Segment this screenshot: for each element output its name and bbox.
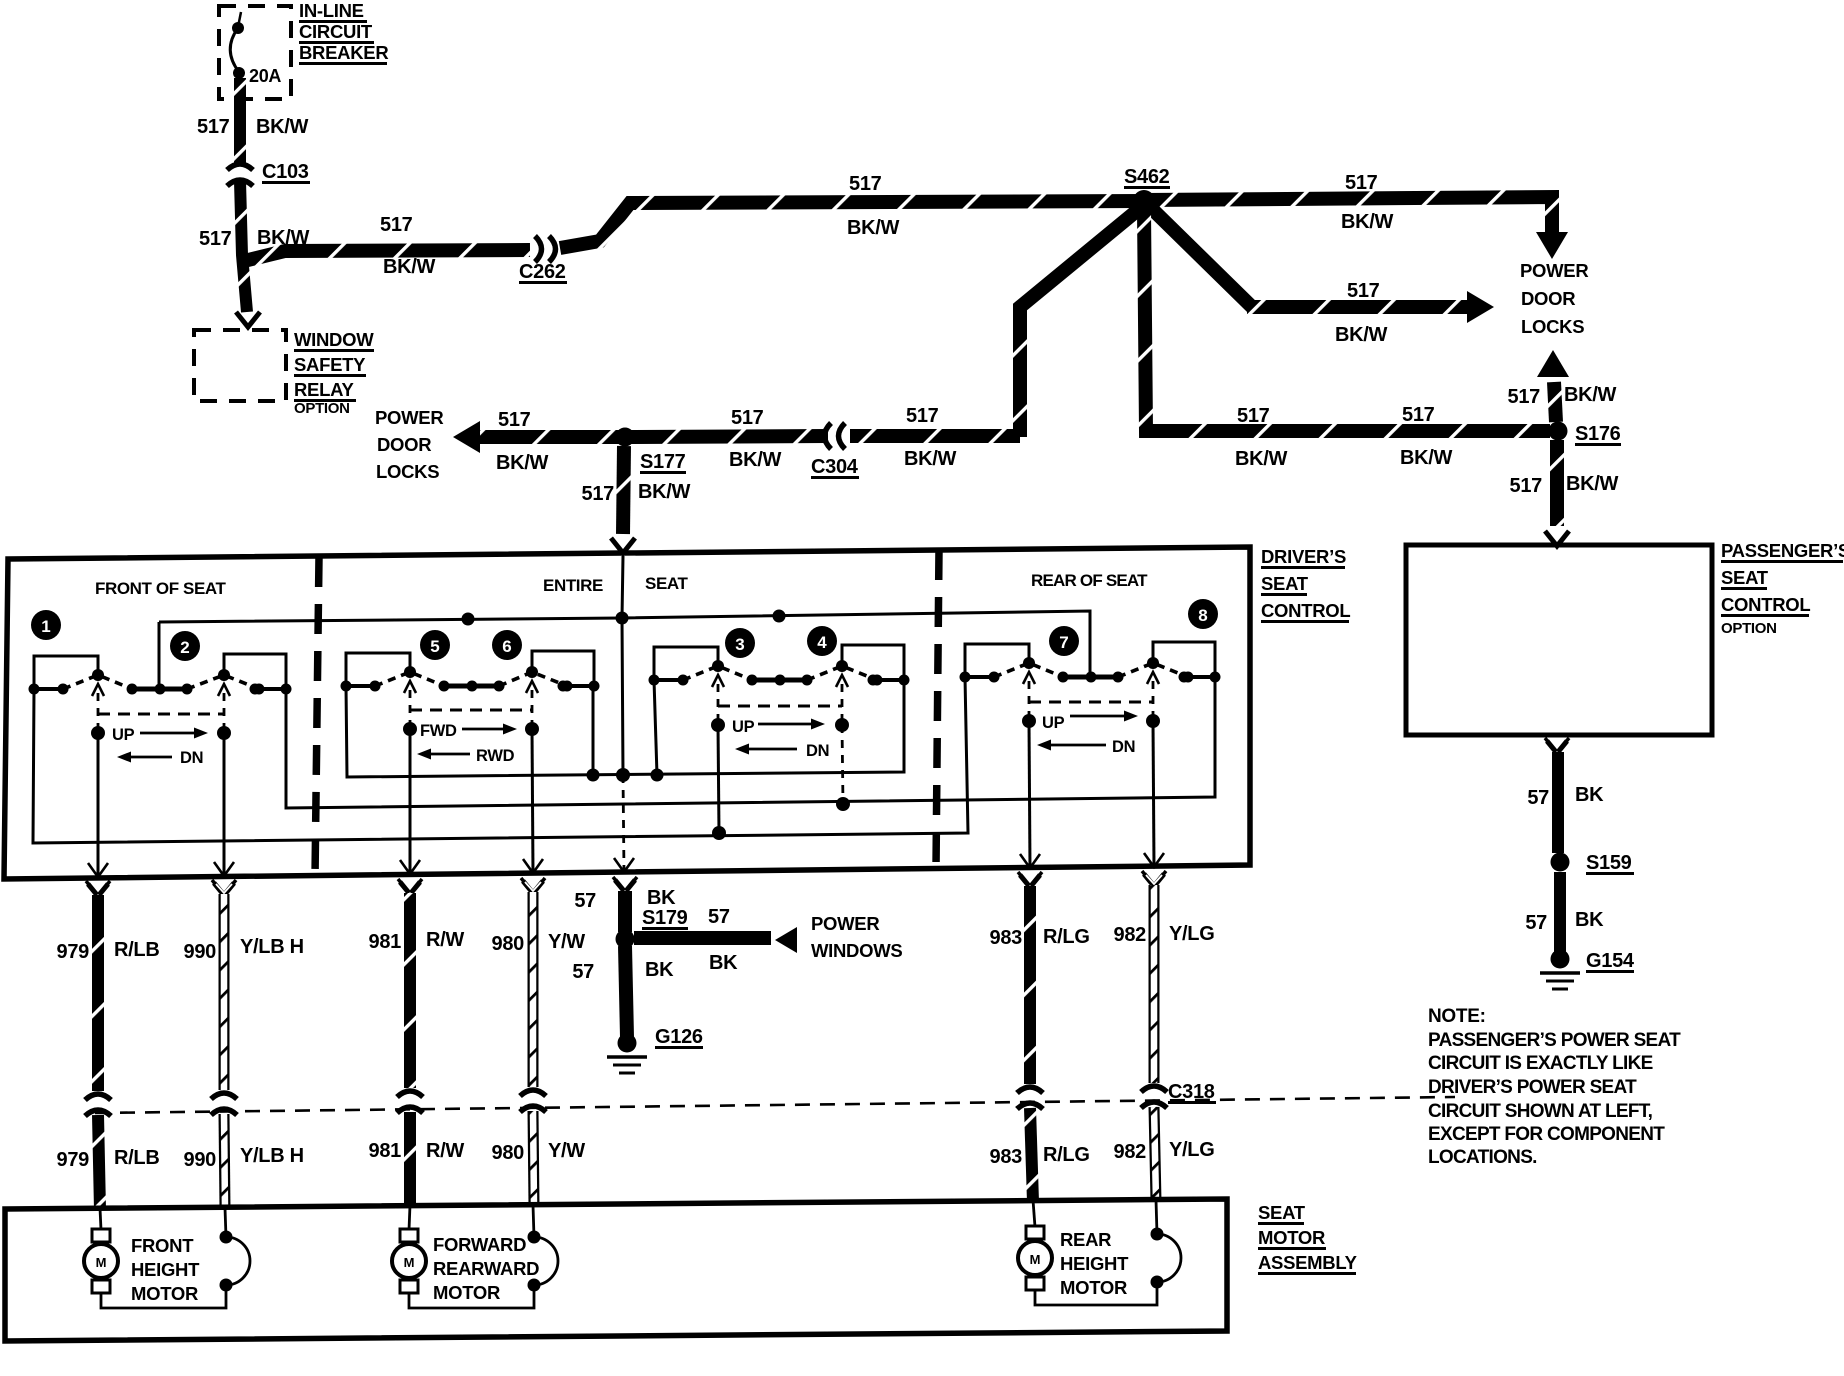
svg-text:5: 5: [430, 637, 439, 656]
circuit breaker element 20A: [238, 12, 241, 27]
svg-text:RWD: RWD: [476, 747, 515, 765]
switch vertical apex4 to rail2 (dashed): [842, 725, 843, 804]
svg-text:980: 980: [492, 1142, 525, 1164]
divider dashed (entire/rear): [936, 550, 939, 868]
switch circle 5: [420, 630, 450, 660]
motor M rear height: [1033, 1200, 1035, 1227]
svg-text:Y/LB H: Y/LB H: [240, 1145, 304, 1167]
svg-text:C262: C262: [519, 261, 566, 283]
svg-text:FWD: FWD: [420, 722, 457, 740]
motor M front height: [100, 1208, 101, 1230]
arrow to power door locks (right): [1467, 291, 1494, 323]
dashed line at connector C318 row: [95, 1097, 1455, 1113]
svg-text:517: 517: [582, 483, 615, 505]
svg-text:3: 3: [735, 635, 744, 654]
arrow into passenger seat control box: [1545, 531, 1569, 546]
svg-text:990: 990: [184, 941, 217, 963]
svg-text:981: 981: [369, 1140, 402, 1162]
wire 983 R/LG lower: [1030, 1108, 1033, 1202]
svg-text:BK/W: BK/W: [1564, 384, 1617, 406]
svg-text:DN: DN: [180, 749, 203, 767]
svg-text:1: 1: [41, 617, 50, 636]
svg-text:517: 517: [199, 228, 232, 250]
svg-text:M: M: [404, 1255, 415, 1270]
wire 57 BK S179 to G126: [625, 946, 627, 1037]
connector C318 break wire 982: [1141, 1086, 1167, 1092]
svg-text:NOTE:: NOTE:: [1428, 1006, 1486, 1027]
svg-text:MOTOR: MOTOR: [131, 1283, 198, 1304]
wire 982 Y/LG lower: [1154, 1107, 1156, 1201]
arrow into driver seat control box: [611, 538, 635, 553]
connector C262: [535, 236, 542, 262]
svg-text:BK/W: BK/W: [1235, 448, 1288, 470]
switch unit 7-8 rear of seat: [965, 644, 1029, 677]
svg-text:983: 983: [990, 927, 1023, 949]
svg-text:BK: BK: [709, 952, 738, 974]
svg-text:DN: DN: [806, 742, 829, 760]
svg-text:PASSENGER’S POWER SEAT: PASSENGER’S POWER SEAT: [1428, 1030, 1681, 1051]
dashed 57 ground feed inside box: [623, 775, 624, 872]
arrow to power door locks (left): [453, 421, 480, 453]
svg-text:OPTION: OPTION: [294, 400, 350, 417]
switch vertical apex3 to rail3: [718, 725, 719, 833]
svg-text:WINDOW: WINDOW: [294, 329, 374, 350]
svg-text:57: 57: [572, 961, 594, 983]
svg-text:BK/W: BK/W: [1341, 211, 1394, 233]
connector feet below box (wire 979): [88, 884, 108, 895]
wire 517 BK/W lower horizontal run to power door locks (left): [478, 436, 828, 437]
svg-text:57: 57: [574, 890, 596, 912]
splice S177: [616, 428, 635, 447]
svg-text:R/LG: R/LG: [1043, 1144, 1090, 1166]
svg-text:2: 2: [180, 638, 189, 657]
svg-text:S177: S177: [640, 451, 686, 473]
svg-text:57: 57: [1525, 912, 1547, 934]
arrow to power door locks (down): [1536, 232, 1568, 259]
svg-text:UP: UP: [1042, 714, 1065, 732]
splice S159: [1551, 853, 1570, 872]
svg-text:982: 982: [1114, 1141, 1147, 1163]
wire 57 BK S159 to G154: [1554, 872, 1566, 953]
svg-text:POWER: POWER: [1520, 260, 1588, 281]
splice S462: [1133, 190, 1155, 212]
svg-text:979: 979: [57, 941, 90, 963]
svg-text:Y/W: Y/W: [548, 931, 585, 953]
svg-text:R/LB: R/LB: [114, 939, 159, 961]
switch unit 1-2 front of seat: [34, 656, 98, 689]
wire 517 BK/W S462 diagonal down-left to lower run: [1020, 209, 1139, 437]
svg-text:G126: G126: [655, 1026, 703, 1048]
switch vertical apex8 (wire 982 feed): [1153, 721, 1154, 867]
svg-text:979: 979: [57, 1149, 90, 1171]
svg-text:SEAT: SEAT: [1261, 573, 1309, 594]
rail 3 inside driver box: [33, 677, 968, 843]
switch circle 8: [1188, 599, 1218, 629]
svg-text:CONTROL: CONTROL: [1721, 594, 1810, 615]
svg-text:517: 517: [1237, 405, 1270, 427]
connector feet below box (wire 982): [1144, 874, 1164, 885]
connector C318 break wire 979: [85, 1094, 111, 1100]
svg-text:20A: 20A: [249, 66, 281, 86]
connector C318 break wire 980: [520, 1090, 546, 1096]
svg-text:BK/W: BK/W: [638, 481, 691, 503]
svg-text:C103: C103: [262, 161, 309, 183]
svg-text:RELAY: RELAY: [294, 379, 354, 400]
svg-text:BK/W: BK/W: [1400, 447, 1453, 469]
svg-text:4: 4: [817, 633, 827, 652]
svg-text:WINDOWS: WINDOWS: [811, 940, 902, 961]
svg-text:LOCKS: LOCKS: [1521, 316, 1584, 337]
svg-text:517: 517: [1510, 475, 1543, 497]
svg-text:517: 517: [197, 116, 230, 138]
svg-text:BK/W: BK/W: [383, 256, 436, 278]
svg-text:CONTROL: CONTROL: [1261, 600, 1350, 621]
wire 983 R/LG upper: [1024, 886, 1036, 1084]
svg-text:S179: S179: [642, 907, 688, 929]
switch vertical apex6 (wire 980 feed): [532, 729, 533, 873]
svg-text:517: 517: [1347, 280, 1380, 302]
svg-text:BK: BK: [647, 887, 676, 909]
svg-text:FORWARD: FORWARD: [433, 1234, 526, 1255]
wire 517 BK/W S462 to power door locks (top right): [1144, 197, 1552, 234]
svg-text:R/LG: R/LG: [1043, 926, 1090, 948]
switch circle 6: [492, 630, 522, 660]
switch unit 5-6 entire seat fwd/rwd: [346, 653, 410, 686]
switch circle 1: [31, 610, 61, 640]
divider dashed (front/entire): [315, 557, 319, 877]
svg-text:CIRCUIT SHOWN AT LEFT,: CIRCUIT SHOWN AT LEFT,: [1428, 1101, 1653, 1122]
splice S179: [616, 930, 635, 949]
svg-text:Y/LB H: Y/LB H: [240, 936, 304, 958]
svg-text:C304: C304: [811, 456, 859, 478]
connector C318 break wire 983: [1017, 1087, 1043, 1093]
svg-text:Y/W: Y/W: [548, 1140, 585, 1162]
svg-text:BK/W: BK/W: [729, 449, 782, 471]
switch circle 2: [170, 631, 200, 661]
svg-text:CIRCUIT IS EXACTLY LIKE: CIRCUIT IS EXACTLY LIKE: [1428, 1053, 1653, 1074]
svg-text:517: 517: [1508, 386, 1541, 408]
driver seat control box: [4, 547, 1250, 879]
svg-text:REARWARD: REARWARD: [433, 1258, 539, 1279]
svg-text:57: 57: [1527, 787, 1549, 809]
svg-text:FRONT OF SEAT: FRONT OF SEAT: [95, 579, 226, 598]
svg-text:BK/W: BK/W: [496, 452, 549, 474]
svg-text:S176: S176: [1575, 423, 1621, 445]
svg-text:M: M: [96, 1255, 107, 1270]
svg-text:FRONT: FRONT: [131, 1235, 194, 1256]
svg-text:POWER: POWER: [811, 913, 879, 934]
svg-text:BK: BK: [1575, 909, 1604, 931]
svg-text:517: 517: [731, 407, 764, 429]
rail 2 inside driver box: [286, 675, 1215, 808]
wire 979 R/LB upper: [92, 895, 104, 1091]
switch vertical apex1 front (wire 979 feed): [97, 733, 100, 877]
svg-text:517: 517: [1345, 172, 1378, 194]
svg-text:R/W: R/W: [426, 1140, 464, 1162]
window safety relay (dashed box): [194, 330, 286, 401]
switch vertical apex5 (wire 981 feed): [409, 729, 412, 874]
motor M forward rearward: [409, 1205, 410, 1230]
switch circle 7: [1049, 626, 1079, 656]
connector feet below box (wire 990): [214, 883, 234, 894]
ground G154: [1551, 950, 1570, 969]
svg-text:MOTOR: MOTOR: [433, 1282, 500, 1303]
arrow from power windows: [775, 927, 797, 953]
svg-text:DOOR: DOOR: [1521, 288, 1575, 309]
connector C103: [227, 164, 253, 170]
wire 517 BK/W S176 up to power door locks: [1554, 382, 1556, 422]
ground rail 1 inside driver box: [346, 679, 904, 777]
svg-text:983: 983: [990, 1146, 1023, 1168]
svg-text:8: 8: [1198, 606, 1207, 625]
switch vertical apex7 (wire 983 feed): [1029, 721, 1030, 868]
svg-text:BREAKER: BREAKER: [299, 42, 388, 63]
svg-text:REAR OF SEAT: REAR OF SEAT: [1031, 571, 1148, 590]
in-line circuit breaker (dashed box): [219, 6, 291, 99]
svg-text:517: 517: [1402, 404, 1435, 426]
wire 517 BK/W S177 down into driver seat control: [623, 446, 624, 534]
svg-text:G154: G154: [1586, 950, 1635, 972]
svg-text:Y/LG: Y/LG: [1169, 1139, 1214, 1161]
wire 980 Y/W lower: [533, 1111, 534, 1206]
wire 990 Y/LB lower: [224, 1114, 225, 1209]
wire 57 BK to S179: [618, 891, 632, 932]
wire 981 R/W upper: [404, 893, 416, 1088]
passenger seat control box: [1406, 545, 1712, 735]
svg-text:IN-LINE: IN-LINE: [299, 0, 364, 21]
svg-text:Y/LG: Y/LG: [1169, 923, 1214, 945]
svg-text:BK: BK: [1575, 784, 1604, 806]
connector feet below passenger box: [1547, 741, 1567, 752]
switch vertical apex2 front (wire 990 feed): [223, 733, 226, 876]
connector feet below box (wire 981): [400, 882, 420, 893]
svg-text:EXCEPT FOR COMPONENT: EXCEPT FOR COMPONENT: [1428, 1124, 1665, 1145]
vertical c6 unit B to rail1: [592, 686, 595, 775]
top rail inside driver box: [159, 611, 1090, 689]
connector feet below box (wire 983): [1020, 875, 1040, 886]
wire 517 BK/W junction to C262: [244, 250, 530, 261]
svg-text:517: 517: [380, 214, 413, 236]
svg-text:BK/W: BK/W: [847, 217, 900, 239]
svg-text:517: 517: [498, 409, 531, 431]
svg-text:980: 980: [492, 933, 525, 955]
wire 517 BK/W S462 down to S176 run: [1144, 210, 1550, 431]
svg-text:BK/W: BK/W: [1566, 473, 1619, 495]
svg-text:990: 990: [184, 1149, 217, 1171]
svg-text:REAR: REAR: [1060, 1229, 1111, 1250]
wire 517 BK/W S462 diagonal to power door locks (middle right): [1150, 207, 1252, 307]
ground G126: [618, 1034, 637, 1053]
svg-text:ENTIRE: ENTIRE: [543, 576, 603, 595]
connector C304: [839, 423, 846, 449]
wire 990 Y/LB upper: [219, 894, 230, 1090]
svg-text:DN: DN: [1112, 738, 1135, 756]
wire 980 Y/W upper: [528, 892, 539, 1087]
svg-text:HEIGHT: HEIGHT: [131, 1259, 200, 1280]
svg-text:M: M: [1030, 1252, 1041, 1267]
svg-text:BK/W: BK/W: [904, 448, 957, 470]
wire 57 BK to power windows: [634, 931, 771, 945]
svg-text:LOCATIONS.: LOCATIONS.: [1428, 1147, 1537, 1168]
wire 57 BK passenger to S159: [1552, 752, 1564, 853]
svg-text:MOTOR: MOTOR: [1060, 1277, 1127, 1298]
svg-text:517: 517: [906, 405, 939, 427]
svg-text:7: 7: [1059, 633, 1068, 652]
svg-text:UP: UP: [732, 718, 755, 736]
svg-text:SEAT: SEAT: [1258, 1202, 1306, 1223]
splice S176: [1549, 422, 1568, 441]
svg-text:982: 982: [1114, 924, 1147, 946]
svg-text:OPTION: OPTION: [1721, 620, 1777, 637]
wire 982 Y/LG upper: [1149, 885, 1160, 1083]
svg-text:BK: BK: [645, 959, 674, 981]
svg-text:517: 517: [849, 173, 882, 195]
svg-text:R/W: R/W: [426, 929, 464, 951]
svg-text:6: 6: [502, 637, 511, 656]
svg-text:DRIVER’S: DRIVER’S: [1261, 546, 1346, 567]
wire 517 BK/W C262 to S462: [560, 201, 1144, 248]
switch circle 3: [725, 628, 755, 658]
svg-text:981: 981: [369, 931, 402, 953]
svg-text:LOCKS: LOCKS: [376, 461, 439, 482]
svg-text:R/LB: R/LB: [114, 1147, 159, 1169]
switch unit 3-4 entire seat up/dn: [654, 647, 718, 680]
connector feet below box (wire 57 BK): [615, 880, 635, 891]
connector C318 break wire 981: [397, 1091, 423, 1097]
svg-text:S159: S159: [1586, 852, 1632, 874]
wire 517 BK/W breaker to C103: [234, 78, 246, 166]
connector feet below box (wire 980): [523, 881, 543, 892]
svg-text:PASSENGER’S: PASSENGER’S: [1721, 540, 1844, 561]
wire 517 BK/W S176 down to passenger seat control: [1550, 440, 1564, 526]
wire 979 R/LB lower: [98, 1115, 100, 1210]
wire 981 R/W lower: [404, 1112, 416, 1207]
box-bottom exit arrows: [88, 863, 108, 877]
svg-text:SEAT: SEAT: [1721, 567, 1769, 588]
svg-text:SEAT: SEAT: [645, 574, 688, 593]
svg-text:DRIVER’S POWER SEAT: DRIVER’S POWER SEAT: [1428, 1077, 1637, 1098]
svg-text:CIRCUIT: CIRCUIT: [299, 21, 373, 42]
vertical c1 unit C to rail1: [654, 680, 657, 775]
svg-text:BK/W: BK/W: [1335, 324, 1388, 346]
svg-text:57: 57: [708, 906, 730, 928]
arrow into window safety relay: [236, 312, 260, 327]
svg-text:POWER: POWER: [375, 407, 443, 428]
svg-text:UP: UP: [112, 726, 135, 744]
seat motor assembly box: [5, 1199, 1227, 1341]
svg-text:BK/W: BK/W: [256, 116, 309, 138]
svg-text:S462: S462: [1124, 166, 1170, 188]
switch circle 4: [807, 626, 837, 656]
svg-text:SAFETY: SAFETY: [294, 354, 366, 375]
svg-text:DOOR: DOOR: [377, 434, 431, 455]
wire from S177 entry down to top rail and ground rail: [622, 556, 623, 775]
svg-text:C318: C318: [1168, 1081, 1215, 1103]
wire 517 BK/W C103 to junction and window safety relay: [240, 181, 247, 312]
connector C318 break wire 990: [211, 1093, 237, 1099]
svg-text:HEIGHT: HEIGHT: [1060, 1253, 1129, 1274]
svg-text:MOTOR: MOTOR: [1258, 1227, 1325, 1248]
svg-text:ASSEMBLY: ASSEMBLY: [1258, 1252, 1358, 1273]
